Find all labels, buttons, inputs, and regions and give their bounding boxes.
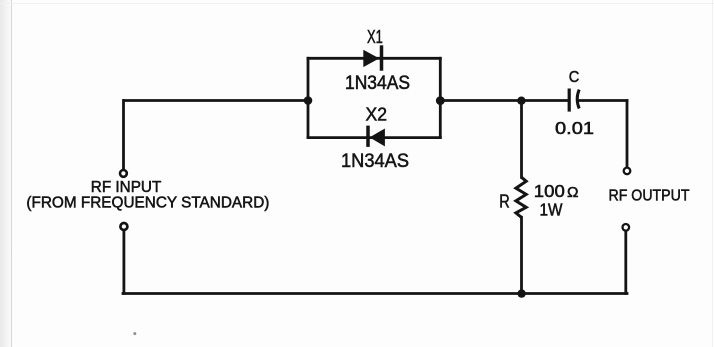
wire top rail left segment: [124, 99, 308, 102]
RF input top terminal: [120, 170, 127, 177]
svg-text:X2: X2: [366, 103, 388, 124]
svg-text:(FROM FREQUENCY STANDARD): (FROM FREQUENCY STANDARD): [26, 195, 269, 212]
svg-text:R: R: [499, 191, 510, 211]
wire diode-box bottom branch: [308, 136, 440, 139]
svg-text:1N34AS: 1N34AS: [345, 73, 410, 94]
capacitor C right plate (curved): [577, 90, 579, 109]
wire resistor bottom lead: [520, 217, 523, 293]
wire diode-box right vertical: [439, 58, 442, 137]
junction dot right of diode box: [436, 96, 445, 105]
diode X2 cathode bar: [366, 126, 370, 147]
diode X2 triangle: [370, 129, 385, 147]
svg-text:Ω: Ω: [567, 184, 579, 201]
junction dot resistor bottom: [517, 289, 525, 297]
svg-text:RF OUTPUT: RF OUTPUT: [609, 187, 690, 204]
svg-text:1W: 1W: [540, 199, 563, 219]
svg-text:C: C: [569, 69, 580, 86]
wire resistor top lead: [520, 101, 523, 178]
junction dot left of diode box: [304, 96, 313, 105]
RF input bottom terminal: [120, 223, 127, 230]
wire mid rail (diode box to capacitor): [440, 99, 568, 102]
capacitor C left plate: [568, 89, 571, 112]
resistor R zigzag: [516, 177, 526, 217]
wire bottom rail: [123, 292, 627, 295]
RF output top terminal: [624, 168, 631, 175]
wire left vertical lower (RF input bottom terminal to bottom rail): [123, 231, 126, 294]
speck artifact bottom left: [133, 332, 136, 335]
svg-text:1N34AS: 1N34AS: [341, 150, 409, 172]
wire right vertical lower (RF output bottom terminal to bottom rail): [624, 231, 627, 294]
wire left vertical upper (to RF input top terminal): [122, 101, 125, 170]
diode X1 cathode bar: [380, 45, 384, 70]
RF output bottom terminal: [623, 224, 630, 231]
svg-text:100: 100: [534, 181, 565, 201]
svg-text:0.01: 0.01: [555, 118, 594, 138]
wire capacitor to right corner: [580, 99, 628, 102]
junction dot resistor top: [517, 97, 525, 105]
wire right vertical upper (to RF output top terminal): [626, 101, 629, 168]
svg-text:RF INPUT: RF INPUT: [91, 179, 162, 196]
wire diode-box top branch: [308, 57, 440, 60]
svg-text:X1: X1: [367, 26, 383, 47]
wire diode-box left vertical: [307, 58, 310, 137]
diode X1 triangle: [363, 50, 379, 67]
